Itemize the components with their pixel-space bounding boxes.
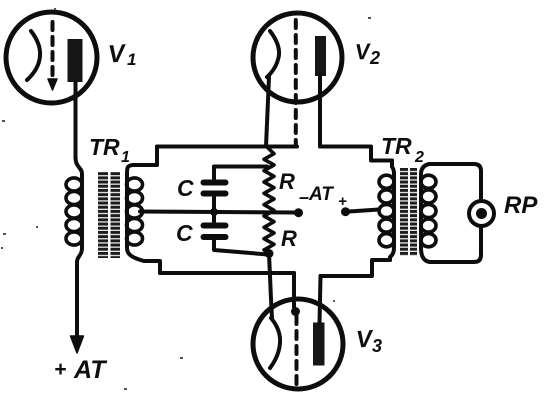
svg-text:–: – <box>299 187 309 207</box>
wire box bottom (TR1 to V3 grid) <box>160 271 294 275</box>
capacitor C1 bottom lead <box>212 197 216 213</box>
transformer TR1 core <box>98 172 108 258</box>
svg-text:AT: AT <box>73 356 108 384</box>
resistors R1+R2 zigzag <box>264 147 274 254</box>
capacitor C1 top lead <box>214 167 267 180</box>
tube V3 filament bar <box>313 323 325 366</box>
capacitor C1 plates <box>201 180 229 186</box>
transformer TR2 primary winding <box>390 161 394 261</box>
svg-text:3: 3 <box>372 336 382 356</box>
tube V2 filament bar <box>315 36 326 76</box>
wire V2 filament down <box>318 76 322 147</box>
wire TR1 secondary bottom to box bottom <box>144 261 160 273</box>
svg-text:R: R <box>279 169 295 194</box>
junction dot R bottom <box>265 249 274 258</box>
tube V3 grid dot <box>291 307 300 316</box>
tube V1 grid (dashed) <box>51 22 55 78</box>
scan speckles <box>1 8 371 390</box>
transformer TR1 primary winding <box>76 157 83 262</box>
tube V3 plate arc <box>270 318 280 368</box>
svg-text:2: 2 <box>369 48 380 68</box>
tube V1 filament bar <box>68 39 83 82</box>
svg-text:+: + <box>338 193 347 210</box>
wire TR1 center tap / middle <box>140 212 297 213</box>
wire plus terminal to TR2 center tap <box>346 210 380 212</box>
svg-text:+: + <box>54 358 66 381</box>
svg-text:RP: RP <box>504 192 538 219</box>
svg-text:C: C <box>177 175 194 201</box>
capacitor C2 top lead <box>212 212 216 223</box>
transformer TR2 secondary winding <box>421 164 429 248</box>
wire box top (TR1 to V2 grid) <box>157 145 297 149</box>
svg-text:V: V <box>107 39 128 68</box>
tube V3 grid (dashed) <box>295 316 299 385</box>
tube V2 envelope <box>253 13 342 102</box>
wire V2 plate arc to R top junction <box>266 77 269 147</box>
wire V3 filament to TR2 bottom (stepped) <box>321 260 391 276</box>
svg-text:1: 1 <box>121 149 130 166</box>
junction dot caps/middle wire <box>210 208 218 216</box>
wire R bottom to V3 plate arc <box>269 254 272 319</box>
transformer TR2 core <box>400 168 408 256</box>
wire V3 filament up <box>320 276 321 323</box>
wire V1 filament to TR1 <box>74 82 78 158</box>
svg-text:C: C <box>176 220 193 246</box>
wire V1/+AT supply lead down <box>75 262 79 338</box>
capacitor C2 plates <box>201 223 229 229</box>
tube V3 envelope <box>253 299 343 389</box>
svg-text:1: 1 <box>127 50 136 69</box>
wire V2 filament to TR2 top (stepped) <box>320 147 392 161</box>
transformer TR1 secondary winding <box>127 165 144 261</box>
tube V1 plate arc <box>27 31 40 80</box>
svg-text:R: R <box>281 226 297 251</box>
wire TR1 secondary top to box top <box>133 147 157 166</box>
capacitor C2 bottom lead <box>214 240 268 255</box>
tube V2 grid (dashed) <box>294 20 298 144</box>
svg-text:2: 2 <box>414 149 424 166</box>
terminal dot plus <box>341 207 350 216</box>
tube V2 plate arc <box>267 31 279 77</box>
wire box bottom corner down to V3 grid dot <box>292 273 296 307</box>
svg-text:TR: TR <box>381 133 412 159</box>
tube V1 envelope <box>6 12 97 103</box>
tube V1 grid end dot <box>48 79 57 90</box>
svg-text:TR: TR <box>89 134 120 160</box>
svg-text:AT: AT <box>308 184 334 205</box>
wire TR2 secondary top to RP <box>429 164 481 201</box>
wire RP to TR2 secondary bottom <box>421 227 481 263</box>
terminal dot minus <box>294 208 303 217</box>
earpiece RP <box>469 201 494 226</box>
arrowhead +AT <box>71 336 84 353</box>
